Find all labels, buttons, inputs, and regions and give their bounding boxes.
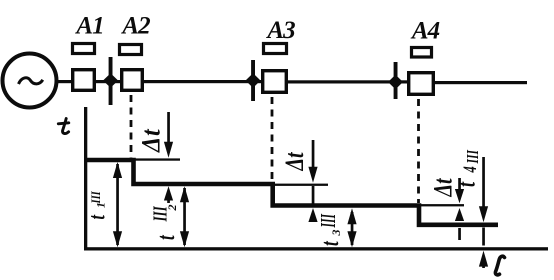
node diamond 1 <box>103 73 118 88</box>
axis label t <box>58 119 69 134</box>
l axis <box>84 247 548 250</box>
dimension dt2 <box>308 140 317 222</box>
label t1 <box>85 191 111 220</box>
svg-text:t: t <box>85 214 111 220</box>
dashed tie A2 to step <box>130 95 133 158</box>
dashed tie A3 to step <box>271 97 274 182</box>
relay box A2 <box>120 45 142 55</box>
breaker A3 <box>263 71 287 93</box>
step3 extension line <box>421 204 464 206</box>
breaker A2 <box>122 70 143 91</box>
relay box A3 <box>264 44 287 54</box>
svg-text:Δt: Δt <box>138 128 166 153</box>
svg-text:4: 4 <box>461 166 481 173</box>
svg-text:A4: A4 <box>410 18 440 45</box>
svg-text:2: 2 <box>165 205 179 212</box>
dashed tie A4 to step <box>417 99 420 203</box>
generator sine symbol <box>19 78 43 84</box>
svg-text:A2: A2 <box>120 13 150 40</box>
time grading staircase <box>85 160 498 225</box>
dimension t3 <box>347 208 356 247</box>
generator G <box>3 54 57 108</box>
wire A3 to A4 <box>286 80 407 83</box>
t axis <box>84 107 87 250</box>
relay box A1 <box>73 44 95 54</box>
svg-text:III: III <box>89 191 103 205</box>
svg-text:Δt: Δt <box>429 177 458 197</box>
bus bar 3 <box>394 62 398 99</box>
dimension dt3 <box>455 178 464 240</box>
svg-text:A1: A1 <box>74 13 103 40</box>
wire A2 to A3 <box>142 80 263 83</box>
svg-text:Δt: Δt <box>281 151 310 171</box>
svg-text:III: III <box>464 150 483 165</box>
node diamond 2 <box>246 73 261 88</box>
bus bar 1 <box>109 57 113 105</box>
dimension t1 <box>113 162 122 247</box>
wire A4 to end <box>433 81 527 84</box>
wire A1 to A2 <box>94 80 122 83</box>
bus bar 2 <box>251 60 255 101</box>
svg-text:t: t <box>316 241 344 246</box>
relay box A4 <box>412 48 432 58</box>
label t4 <box>451 150 482 187</box>
breaker A1 <box>73 70 95 91</box>
dimension t2 <box>180 186 189 247</box>
svg-text:III: III <box>316 214 339 228</box>
label t3 <box>316 214 344 246</box>
svg-text:3: 3 <box>329 230 343 237</box>
label t2 <box>149 205 180 241</box>
axis label l <box>495 256 504 275</box>
breaker A4 <box>409 73 434 95</box>
svg-text:t: t <box>152 235 180 240</box>
svg-text:A3: A3 <box>265 17 295 44</box>
step2 extension line <box>275 184 328 186</box>
dimension t4 <box>479 157 488 268</box>
wire generator to A1 <box>55 80 71 83</box>
dimension dt1 <box>164 112 173 203</box>
node diamond 3 <box>388 75 403 90</box>
step1 extension line <box>134 158 180 160</box>
